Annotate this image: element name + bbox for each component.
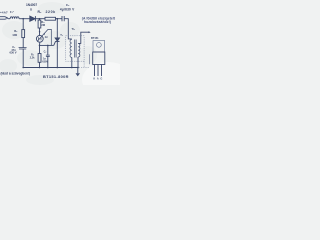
svg-text:220k: 220k — [46, 10, 56, 14]
svg-text:T₁: T₁ — [60, 33, 63, 37]
node T1 anode — [57, 18, 59, 20]
diode D1 1N4007 — [30, 16, 36, 21]
TO-220 legs — [95, 65, 102, 77]
node after choke — [22, 18, 24, 20]
secondary top lead to output — [78, 32, 89, 43]
wire C2 leads — [47, 45, 49, 67]
mains input terminal arrow — [0, 17, 8, 20]
svg-text:1N4007: 1N4007 — [26, 3, 37, 7]
svg-text:R₂: R₂ — [38, 10, 42, 14]
svg-text:≈4A7: ≈4A7 — [0, 11, 8, 15]
pulse transformer Tr1 primary — [70, 39, 72, 57]
glow lamp Gl — [36, 35, 43, 42]
wire glow lamp bottom — [39, 42, 41, 45]
wire diode to R2 — [35, 18, 45, 20]
transformer Tr1 secondary — [78, 43, 80, 57]
svg-text:630V: 630V — [42, 60, 48, 63]
wire C3 to transformer rail — [64, 19, 72, 39]
resistor R2 220k — [45, 17, 56, 20]
svg-text:BT151: BT151 — [91, 37, 99, 40]
svg-text:2,2k: 2,2k — [30, 57, 35, 60]
svg-text:C₃: C₃ — [66, 3, 70, 7]
secondary bottom lead — [77, 57, 79, 68]
svg-text:100: 100 — [12, 33, 17, 37]
wire input to choke — [8, 18, 10, 20]
bottom wire — [23, 67, 78, 69]
node ground — [77, 67, 79, 69]
svg-text:630 V: 630 V — [10, 51, 17, 55]
svg-text:G: G — [100, 78, 102, 81]
node gate wire — [39, 45, 41, 47]
choke F1 — [10, 17, 19, 19]
resistor R5 — [38, 54, 41, 63]
capacitor C2 — [46, 55, 50, 56]
TO-220 package tab — [93, 41, 105, 52]
svg-text:D: D — [30, 7, 32, 11]
leader line near package — [89, 54, 91, 64]
svg-text:K: K — [93, 78, 95, 81]
node bottom Tr1 primary — [71, 67, 73, 69]
node glow lamp top lead — [39, 31, 41, 33]
svg-text:A: A — [97, 78, 99, 81]
wire choke to diode — [19, 18, 30, 20]
thyristor T1 — [54, 19, 60, 68]
node bottom T1 cathode — [57, 67, 59, 69]
primary bottom wire — [71, 57, 73, 67]
svg-text:Gl: Gl — [45, 35, 48, 39]
transformer core — [75, 40, 76, 58]
svg-text:(lásd a szövegben!): (lásd a szövegben!) — [1, 71, 31, 75]
svg-text:F₁*: F₁* — [10, 10, 14, 14]
node bottom C2 — [47, 67, 49, 69]
dashed leader to package — [79, 61, 90, 67]
wire R2 to C3 — [56, 18, 63, 20]
dashed module box Tr1 — [66, 36, 85, 61]
node C2 top — [47, 45, 49, 47]
TO-220 body — [93, 52, 105, 65]
wire R4 to glow lamp — [39, 28, 41, 35]
gate wire — [40, 44, 54, 46]
wire C1 to bottom — [22, 49, 24, 68]
node R4 top — [39, 18, 41, 20]
resistor R4 2M — [38, 20, 41, 28]
capacitor C1 47n — [19, 48, 27, 49]
wire junction to R5 to bottom — [39, 45, 41, 67]
ground symbol — [76, 68, 81, 77]
labels — [0, 3, 116, 81]
svg-text:BT151-800R: BT151-800R — [43, 74, 69, 79]
svg-text:C₂: C₂ — [44, 51, 47, 54]
TO-220 mounting hole — [97, 43, 102, 48]
svg-text:4μ/630 V: 4μ/630 V — [60, 7, 75, 11]
background — [0, 0, 120, 85]
scan texture — [0, 2, 97, 85]
wire R3 to C1 — [22, 38, 24, 48]
resistor R3 100 — [22, 30, 25, 38]
capacitor C3 — [62, 16, 64, 21]
node bottom C1 — [22, 67, 24, 69]
trigger arrow wire from glow lamp — [37, 29, 51, 45]
svg-text:2M: 2M — [41, 23, 45, 27]
svg-text:huzalozásához!): huzalozásához!) — [84, 20, 111, 24]
wire to R4 — [39, 19, 41, 20]
node bottom R5 — [39, 67, 41, 69]
output arrowhead — [89, 31, 91, 33]
left rail wire — [22, 19, 24, 30]
